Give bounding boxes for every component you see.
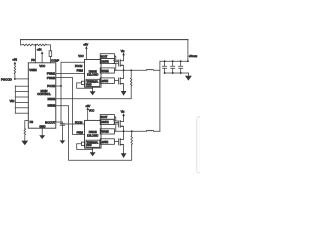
- ground arrow GND pin: [41, 128, 43, 135]
- transistor Q2 low-side: [117, 78, 119, 84]
- node cap3 bottom: [180, 72, 182, 74]
- thermal pad U2: [86, 79, 100, 86]
- wire ISEN2 rail: [56, 106, 132, 160]
- svg-text:PWM: PWM: [77, 68, 83, 72]
- ground arrow Q2 source: [121, 91, 127, 96]
- wire phase node 1: [114, 69, 159, 71]
- thermal pad U3: [86, 140, 100, 147]
- wire top feedback rail from output to compensation: [21, 39, 188, 41]
- svg-text:PGOOD: PGOOD: [1, 77, 13, 81]
- node phase2 at Q3 source: [123, 130, 125, 132]
- supply +5V arrow U2: [85, 48, 87, 59]
- pin box UGATE U2: [100, 58, 114, 63]
- ground arrow thermal U3: [92, 148, 94, 152]
- VID bus vertical: [14, 86, 16, 113]
- resistor R7 (box style) above COMP pin: [49, 51, 52, 57]
- wire FS bottom to resistor: [25, 121, 29, 129]
- node A junction rail2: [35, 44, 37, 46]
- svg-text:FCCM: FCCM: [75, 120, 82, 124]
- svg-text:ISCOUT: ISCOUT: [45, 121, 55, 125]
- pin box PHASE U3: [100, 129, 114, 134]
- pin box BOOT U3: [100, 115, 114, 120]
- svg-text:LGATE: LGATE: [101, 80, 109, 83]
- pin box UGATE U3: [100, 119, 114, 124]
- svg-text:FS: FS: [30, 120, 34, 124]
- inductor L1: [146, 68, 153, 71]
- svg-text:ISEN2: ISEN2: [48, 104, 56, 108]
- resistor R1: [21, 44, 36, 46]
- svg-text:CONTROL: CONTROL: [37, 92, 51, 96]
- pin box thermal U3: [81, 142, 84, 145]
- svg-text:+IN: +IN: [37, 48, 42, 52]
- wire LGATE to Q2 gate: [114, 80, 118, 82]
- inductor L2: [146, 129, 153, 132]
- wire VID stub 3: [15, 96, 28, 98]
- node cap3 top: [180, 60, 182, 62]
- svg-text:PHASE: PHASE: [101, 70, 109, 73]
- svg-text:+VCORE: +VCORE: [189, 55, 198, 58]
- node cap1 bottom: [164, 72, 166, 74]
- svg-text:FCCM: FCCM: [47, 84, 56, 88]
- wire UGATE to Q3 gate: [114, 122, 118, 124]
- node cap2 bottom: [172, 72, 174, 74]
- wire thermal loop U3: [77, 144, 93, 150]
- svg-text:VSEN: VSEN: [29, 68, 36, 72]
- wire COMP drop: [49, 45, 51, 63]
- wire vcore drop from top rail: [187, 40, 189, 62]
- pin box thermal U2: [81, 81, 84, 84]
- svg-text:LGATE: LGATE: [101, 141, 109, 144]
- svg-text:PHASE: PHASE: [101, 131, 109, 134]
- capacitor C6: [171, 61, 175, 73]
- svg-text:GND: GND: [39, 124, 45, 128]
- ground arrow ISCOUT: [60, 140, 66, 144]
- svg-text:VCC: VCC: [89, 109, 94, 113]
- svg-text:PAD: PAD: [87, 83, 92, 86]
- wire UGATE to Q1 gate: [114, 61, 118, 63]
- wire PWM1: [56, 73, 85, 75]
- node cap1 top: [164, 60, 166, 62]
- svg-text:PAD: PAD: [87, 144, 92, 147]
- node FCCM tee: [60, 85, 62, 87]
- wire VID stub 4: [15, 101, 28, 103]
- supply +IN arrow over VCC pin: [41, 54, 43, 63]
- svg-text:IC/LOGIC: IC/LOGIC: [87, 73, 98, 77]
- ground arrow Q4 source: [121, 153, 127, 158]
- ground arrow output caps: [187, 73, 189, 76]
- decorative faint panel edge: [197, 117, 211, 174]
- ground arrow FS: [21, 141, 28, 146]
- svg-text:PWM: PWM: [77, 131, 83, 135]
- svg-text:FCCM: FCCM: [75, 64, 82, 68]
- resistor R6 ISEN2: [131, 131, 133, 144]
- svg-text:PWM2: PWM2: [47, 76, 56, 80]
- wire LGATE to Q4 gate: [114, 141, 118, 143]
- node phase2 at ISEN resistor: [131, 130, 133, 132]
- wire FCCM rail: [61, 62, 85, 124]
- node PGOOD junction: [14, 78, 16, 80]
- wire phase node 2: [114, 130, 159, 132]
- transistor Q1 high-side: [117, 60, 119, 66]
- svg-text:VIN: VIN: [121, 110, 125, 114]
- svg-text:VCC: VCC: [39, 64, 45, 68]
- supply VIN arrow top: [123, 54, 125, 57]
- svg-text:BOOT: BOOT: [101, 55, 108, 58]
- svg-text:COMP: COMP: [51, 58, 59, 62]
- capacitor C5: [163, 61, 167, 73]
- svg-text:VID: VID: [10, 99, 16, 103]
- wire output bottom bus: [165, 72, 189, 74]
- capacitor C3 bootstrap bottom: [113, 117, 118, 131]
- svg-text:+IN: +IN: [12, 58, 17, 62]
- node cap2 top: [172, 60, 174, 62]
- svg-text:UGATE: UGATE: [101, 60, 109, 63]
- svg-text:+5V: +5V: [85, 104, 90, 108]
- svg-text:VIN: VIN: [121, 49, 125, 53]
- node vcore corner: [187, 60, 189, 62]
- svg-text:+5V: +5V: [83, 42, 88, 46]
- svg-text:FS: FS: [31, 58, 35, 62]
- svg-text:IC/LOGIC: IC/LOGIC: [87, 133, 98, 137]
- transistor Q4 low-side: [117, 139, 119, 145]
- supply VIN arrow bottom: [123, 116, 125, 117]
- transistor Q3 high-side: [117, 121, 119, 127]
- svg-text:BOOT: BOOT: [101, 116, 108, 119]
- supply +5V arrow U3: [87, 110, 89, 121]
- svg-text:ISEN1: ISEN1: [48, 97, 56, 101]
- wire PGOOD to U1: [15, 78, 28, 80]
- resistor R3 pullup: [14, 64, 16, 79]
- ground arrow thermal U2: [92, 87, 94, 91]
- supply +IN arrow left (PGOOD pullup): [14, 61, 17, 64]
- op-amp U3 drive IC bottom: [85, 120, 102, 148]
- wire PWM2 rail: [56, 78, 85, 135]
- node phase1 at ISEN resistor: [130, 69, 132, 71]
- svg-text:VCC: VCC: [78, 54, 83, 58]
- pin box LGATE U2: [100, 78, 114, 84]
- wire FCCM from U1: [56, 85, 61, 87]
- op-amp U1 main controller box: [28, 63, 56, 128]
- svg-text:UGATE: UGATE: [101, 121, 109, 124]
- wire thermal loop U2: [77, 83, 93, 88]
- node phase1 at Q1 source: [123, 69, 125, 71]
- wire VID stub 6: [15, 112, 28, 114]
- capacitor C7: [179, 61, 183, 73]
- wire VID stub 2: [15, 91, 28, 93]
- wire left jog connecting rails: [20, 40, 22, 45]
- capacitor C4 on ISCOUT: [60, 124, 64, 126]
- wire ISCOUT: [56, 122, 63, 124]
- pin box BOOT U2: [100, 54, 114, 59]
- wire ISEN1: [56, 86, 131, 99]
- resistor R2: [36, 44, 51, 46]
- wire FS pin drop: [35, 45, 37, 63]
- pin box LGATE U3: [100, 139, 114, 145]
- pin box PHASE U2: [100, 68, 114, 73]
- wire VID stub 1: [15, 85, 28, 87]
- op-amp U2 drive IC top: [85, 60, 102, 88]
- wire output top bus: [160, 60, 188, 62]
- resistor R5 ISEN1: [130, 70, 132, 86]
- wire output node vertical: [159, 61, 161, 131]
- svg-text:PWM1: PWM1: [47, 71, 56, 75]
- wire VID stub 5: [15, 107, 28, 109]
- resistor R4 frequency set: [24, 129, 26, 141]
- capacitor C2 bootstrap top: [113, 56, 118, 70]
